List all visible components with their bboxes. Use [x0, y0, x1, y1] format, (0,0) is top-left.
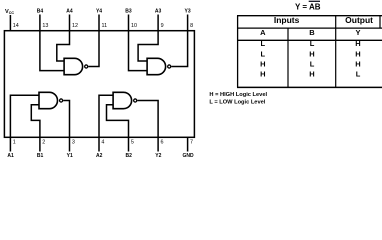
pin 12 label A4 — [66, 9, 73, 15]
svg-text:A: A — [260, 28, 266, 37]
pin 14 number — [13, 23, 19, 29]
svg-text:L: L — [261, 49, 266, 58]
pin 10 label B3 — [125, 9, 132, 15]
column header B — [309, 28, 315, 37]
svg-text:L: L — [310, 60, 315, 69]
note L = LOW Logic Level — [209, 100, 265, 106]
svg-text:H: H — [260, 60, 265, 69]
pin 13 label B4 — [37, 9, 44, 15]
pin 5 B2 lead — [128, 137, 130, 151]
svg-text:Output: Output — [345, 15, 373, 25]
svg-text:12: 12 — [72, 23, 78, 29]
wire A1: pin 1 to U1A input A — [10, 95, 39, 137]
svg-text:B1: B1 — [37, 153, 44, 159]
pin 11 Y4 lead — [98, 15, 100, 31]
pin 12 A4 lead — [69, 15, 71, 31]
pin 6 label Y2 — [155, 153, 161, 159]
pin 4 label A2 — [96, 153, 103, 159]
svg-text:7: 7 — [190, 140, 193, 146]
pin 13 number — [42, 23, 48, 29]
NAND gate U1B (bottom right) — [113, 92, 137, 108]
svg-text:6: 6 — [161, 140, 164, 146]
svg-text:A4: A4 — [66, 9, 73, 15]
svg-text:Y1: Y1 — [67, 153, 73, 159]
pin 8 number — [190, 23, 193, 29]
svg-text:VCC: VCC — [5, 9, 14, 15]
truth table row 3: H L H — [260, 60, 361, 69]
column header Y — [355, 28, 360, 37]
pin 4 A2 lead — [98, 137, 100, 151]
svg-text:Y3: Y3 — [185, 9, 191, 15]
svg-text:11: 11 — [102, 23, 108, 29]
svg-text:13: 13 — [42, 23, 48, 29]
pin 3 label Y1 — [67, 153, 73, 159]
wire B1: pin 2 to U1A input B — [31, 105, 40, 137]
svg-text:B2: B2 — [125, 153, 132, 159]
svg-text:Y4: Y4 — [96, 9, 102, 15]
pin 13 B4 lead — [39, 15, 41, 31]
pin 8 Y3 lead — [187, 15, 189, 31]
svg-text:A2: A2 — [96, 153, 103, 159]
truth table row 4: H H L — [260, 70, 361, 79]
pin 14 VCC lead — [9, 15, 11, 31]
pin 1 A1 lead — [9, 137, 11, 151]
pin 12 number — [72, 23, 78, 29]
column header A — [260, 28, 266, 37]
wire Y1: U1A output to pin 3 — [63, 101, 69, 138]
svg-text:14: 14 — [13, 23, 19, 29]
svg-text:H: H — [355, 60, 360, 69]
wire Y4: U1D output to pin 11 — [88, 31, 99, 67]
pin 2 B1 lead — [39, 137, 41, 151]
svg-text:Inputs: Inputs — [274, 15, 300, 25]
pin 8 label Y3 — [185, 9, 191, 15]
pin 9 A3 lead — [157, 15, 159, 31]
svg-text:H: H — [309, 70, 314, 79]
wire B2: pin 5 to U1B input B — [107, 105, 129, 137]
wire B3: pin 10 to U1C input B — [129, 31, 148, 71]
pin 5 label B2 — [125, 153, 132, 159]
svg-text:4: 4 — [101, 140, 104, 146]
svg-text:Y2: Y2 — [155, 153, 161, 159]
pin 1 number — [13, 140, 16, 146]
svg-text:9: 9 — [161, 23, 164, 29]
svg-text:Y: Y — [355, 28, 360, 37]
svg-text:L: L — [261, 39, 266, 48]
svg-text:3: 3 — [72, 140, 75, 146]
IC package outline U1 — [4, 31, 194, 138]
note H = HIGH Logic Level — [209, 92, 267, 98]
truth table grid — [237, 16, 382, 88]
pin 6 Y2 lead — [157, 137, 159, 151]
truth table header Inputs — [274, 15, 300, 25]
pin 2 label B1 — [37, 153, 44, 159]
pin 4 number — [101, 140, 104, 146]
wire Y3: U1C output to pin 8 — [171, 31, 187, 67]
svg-text:Y = AB: Y = AB — [295, 3, 321, 12]
svg-text:H: H — [355, 49, 360, 58]
pin 10 B3 lead — [128, 15, 130, 31]
wire A4: pin 12 to U1D input A — [57, 31, 70, 61]
svg-text:GND: GND — [182, 153, 194, 159]
NAND gate U1C (top right) — [147, 58, 171, 74]
svg-text:L: L — [310, 39, 315, 48]
svg-text:B: B — [309, 28, 315, 37]
svg-text:H: H — [355, 39, 360, 48]
svg-text:L = LOW Logic Level: L = LOW Logic Level — [209, 100, 265, 106]
pin 11 number — [102, 23, 108, 29]
pin 2 number — [42, 140, 45, 146]
wire A2: pin 4 to U1B input A — [99, 95, 113, 137]
pin 5 number — [131, 140, 134, 146]
svg-text:H = HIGH Logic Level: H = HIGH Logic Level — [209, 92, 267, 98]
svg-text:A1: A1 — [7, 153, 14, 159]
wire A3: pin 9 to U1C input A — [138, 31, 158, 61]
truth table row 1: L L H — [261, 39, 361, 48]
pin 1 label A1 — [7, 153, 14, 159]
svg-text:5: 5 — [131, 140, 134, 146]
pin 3 Y1 lead — [69, 137, 71, 151]
pin 6 number — [161, 140, 164, 146]
truth table title Y = AB(bar) — [295, 1, 321, 11]
svg-text:H: H — [260, 70, 265, 79]
wire Y2: U1B output to pin 6 — [137, 101, 158, 138]
pin 3 number — [72, 140, 75, 146]
truth table row 2: L H H — [261, 49, 361, 58]
pin 7 label GND — [182, 153, 194, 159]
pin 10 number — [131, 23, 137, 29]
svg-text:L: L — [356, 70, 361, 79]
pin 9 number — [161, 23, 164, 29]
pin 14 label VCC — [5, 9, 14, 15]
NAND gate U1D (top left) — [64, 58, 88, 74]
truth table header Output — [345, 15, 373, 25]
svg-text:8: 8 — [190, 23, 193, 29]
pin 7 number — [190, 140, 193, 146]
svg-text:B4: B4 — [37, 9, 44, 15]
svg-text:A3: A3 — [155, 9, 162, 15]
pin 7 GND lead — [187, 137, 189, 151]
svg-text:2: 2 — [42, 140, 45, 146]
svg-text:10: 10 — [131, 23, 137, 29]
wire B4: pin 13 to U1D input B — [40, 31, 64, 71]
svg-text:1: 1 — [13, 140, 16, 146]
pin 11 label Y4 — [96, 9, 102, 15]
pin 9 label A3 — [155, 9, 162, 15]
svg-text:H: H — [309, 49, 314, 58]
NAND gate U1A (bottom left) — [39, 92, 63, 108]
svg-text:B3: B3 — [125, 9, 132, 15]
